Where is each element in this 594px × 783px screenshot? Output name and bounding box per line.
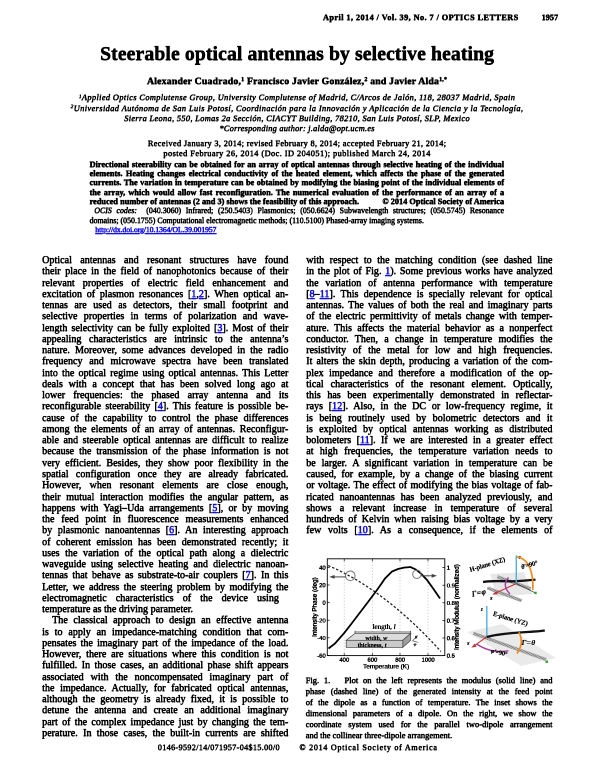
svg-text:0.5: 0.5 <box>447 654 456 660</box>
H-plane: x axis (red arrow) <box>492 584 516 595</box>
svg-text:x: x <box>489 596 493 602</box>
H-plane: z axis (blue) <box>515 555 517 583</box>
svg-text:Temperature (K): Temperature (K) <box>363 663 409 670</box>
inset: dipole front face <box>346 640 403 647</box>
arrow to right axis <box>421 574 437 578</box>
solid modulus curve <box>329 567 441 649</box>
inset: small axis triad <box>413 636 419 643</box>
circle marker on solid curve <box>413 570 421 578</box>
tick labels right <box>447 566 456 660</box>
arrow to left axis <box>329 575 345 579</box>
E-plane: orange theta arc <box>517 632 521 653</box>
svg-text:z: z <box>480 608 483 613</box>
E-plane: pattern thick line <box>487 631 545 638</box>
H-plane: y axis line and green end dot <box>516 584 534 593</box>
H-plane: hatched dipole A <box>497 576 531 591</box>
H-plane: pattern thick line <box>483 580 536 582</box>
figure caption <box>306 675 553 686</box>
left column text <box>42 255 288 266</box>
svg-text:Γ=θ: Γ=θ <box>521 638 536 647</box>
svg-text:-60: -60 <box>317 654 326 660</box>
E-plane: hatched three-dipole ribbon <box>473 632 546 661</box>
svg-text:0: 0 <box>322 601 326 607</box>
svg-text:width, w: width, w <box>365 635 388 642</box>
svg-text:thickness, t: thickness, t <box>358 642 387 649</box>
x tick labels <box>339 658 435 664</box>
right column text <box>306 255 552 266</box>
dashed phase curve <box>328 566 441 652</box>
svg-text:Γ=φ: Γ=φ <box>470 587 487 599</box>
H-plane: purple gamma arc <box>505 578 510 595</box>
inset: dipole top face <box>346 633 411 640</box>
svg-text:1000: 1000 <box>421 658 435 664</box>
svg-text:x: x <box>466 641 470 647</box>
svg-text:Intensity Phase (deg): Intensity Phase (deg) <box>312 577 319 637</box>
circle marker on dashed curve <box>346 571 356 581</box>
svg-text:1: 1 <box>447 566 450 572</box>
H-plane: hatched dipole B <box>487 587 522 602</box>
E-plane: z axis (blue) <box>486 606 488 637</box>
svg-text:400: 400 <box>339 658 350 664</box>
svg-text:θ: θ <box>415 635 418 640</box>
svg-text:Intensity Modulus (normalized): Intensity Modulus (normalized) <box>454 564 461 650</box>
E-plane: purple phi arc <box>477 644 509 652</box>
axis ticks <box>327 559 445 656</box>
inset: dipole side face <box>403 633 411 647</box>
E-plane: x axis (red arrow) <box>471 637 487 648</box>
E-plane: green end dot <box>546 661 548 663</box>
H-plane diagram: substrate plane <box>490 572 532 597</box>
svg-text:20: 20 <box>319 583 326 589</box>
svg-text:length, l: length, l <box>373 623 396 631</box>
svg-text:40: 40 <box>319 566 326 572</box>
svg-text:φ: φ <box>414 641 417 646</box>
H-plane: orange theta arc <box>517 557 533 590</box>
plot frame <box>327 559 445 656</box>
inset: length dimension line <box>355 631 411 634</box>
tick labels left <box>317 566 326 660</box>
figure 1 plot gridlines <box>344 559 428 656</box>
E-plane diagram: substrate plane <box>467 624 556 666</box>
svg-text:H-plane (XZ): H-plane (XZ) <box>469 556 506 573</box>
